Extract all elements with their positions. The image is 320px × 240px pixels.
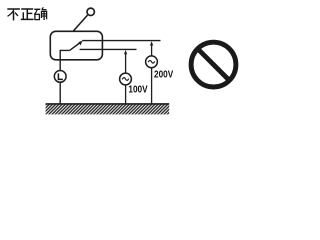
wire: upper throw to 200V <box>82 40 160 42</box>
svg-text:100V: 100V <box>128 85 147 96</box>
wire: lower throw to 100V <box>80 48 137 50</box>
lamp L <box>54 71 66 83</box>
AC source 100V <box>120 50 132 104</box>
char 正 <box>21 9 34 19</box>
AC source 200V <box>146 41 158 104</box>
label: caption 不正确 (drawn as strokes) <box>7 7 46 20</box>
switch blade with arrow tip <box>70 41 83 51</box>
char 确 <box>34 7 46 20</box>
wire: switch common down to lamp and ground <box>60 50 69 103</box>
ground plane hatching <box>46 104 170 114</box>
char 不 <box>7 9 20 20</box>
switch box enclosure <box>50 31 102 60</box>
svg-text:200V: 200V <box>154 70 173 81</box>
knob <box>87 8 94 15</box>
lever <box>73 15 88 32</box>
prohibition sign <box>191 42 236 87</box>
